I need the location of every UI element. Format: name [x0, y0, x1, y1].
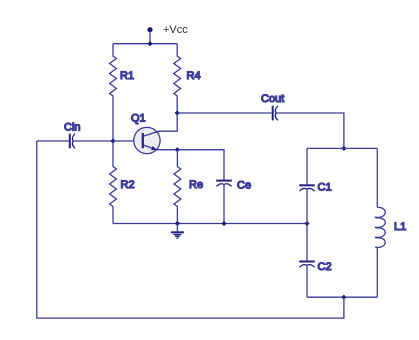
capacitor Cin: [70, 134, 75, 149]
power +Vcc terminal: [147, 27, 152, 44]
wire top supply rail: [113, 43, 177, 45]
wire Cout to tank top: [276, 113, 344, 148]
svg-text:+Vcc: +Vcc: [163, 24, 188, 36]
junction tank bottom node: [341, 295, 346, 300]
capacitor Ce: [216, 181, 232, 187]
junction Vcc node: [147, 41, 152, 46]
svg-text:Cin: Cin: [64, 122, 81, 134]
svg-text:Ce: Ce: [237, 179, 251, 191]
inductor L1: [375, 148, 385, 297]
junction C1 C2 midpoint node: [304, 221, 309, 226]
ground: [171, 224, 184, 239]
svg-text:L1: L1: [394, 221, 406, 233]
svg-text:C1: C1: [318, 182, 332, 194]
resistor R1: [110, 44, 117, 141]
junction Ce bottom node: [221, 221, 226, 226]
junction emitter node: [175, 147, 180, 152]
wire C1 bottom lead: [306, 189, 308, 223]
resistor Re: [174, 150, 181, 224]
wire Ce to ground rail: [223, 184, 225, 223]
wire feedback loop: [37, 141, 344, 318]
svg-text:Cout: Cout: [261, 93, 284, 105]
wire ground rail: [113, 223, 307, 225]
svg-text:Re: Re: [189, 179, 203, 191]
wire collector node to Cout: [177, 112, 271, 114]
wire C2 top lead: [306, 224, 308, 261]
junction base node: [110, 138, 115, 143]
wire C1 top lead: [306, 148, 308, 184]
svg-text:R1: R1: [120, 70, 134, 82]
wire Cin to base node: [74, 140, 114, 142]
svg-text:R2: R2: [121, 179, 135, 191]
junction collector node: [175, 110, 180, 115]
wire C2 bottom lead: [306, 265, 308, 297]
junction tank top node: [341, 146, 346, 151]
junction ground node: [175, 221, 180, 226]
wire tank top rail: [307, 147, 377, 149]
resistor R2: [110, 141, 117, 224]
svg-text:Q1: Q1: [131, 113, 146, 125]
wire emitter to Ce: [177, 150, 224, 180]
wire tank bottom rail: [307, 296, 377, 298]
resistor R4: [174, 44, 181, 113]
wire input left lead: [37, 140, 69, 142]
capacitor Cout: [273, 106, 278, 121]
svg-text:R4: R4: [187, 70, 201, 82]
svg-text:C2: C2: [318, 261, 332, 273]
capacitor C2: [299, 262, 315, 268]
wire base node to transistor: [113, 140, 143, 142]
capacitor C1: [299, 185, 315, 191]
transistor Q1: [134, 113, 178, 154]
